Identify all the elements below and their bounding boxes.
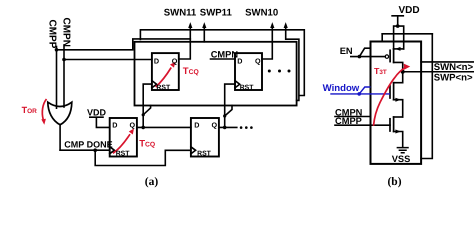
wire SWP10 wrap-around bus xyxy=(286,26,299,101)
arrow Tcq upper FF1 xyxy=(156,68,172,88)
junction dot VDD node xyxy=(396,24,400,28)
ellipsis inside slice box xyxy=(268,70,271,73)
arrowhead T3T xyxy=(404,64,411,70)
wire tap diagonal to slice box bottom xyxy=(143,106,150,115)
svg-text:Q: Q xyxy=(212,121,218,130)
transistor M2 channel xyxy=(393,83,395,100)
svg-text:SWN<n>: SWN<n> xyxy=(434,62,474,73)
junction dot CMPP rail xyxy=(55,48,59,52)
wire CMP DONE xyxy=(60,149,110,151)
arrow TOR timing xyxy=(42,99,46,120)
wire VDD rail horizontal xyxy=(382,33,432,35)
svg-text:CMPN: CMPN xyxy=(211,49,239,59)
upper flip-flop FF1 box xyxy=(152,53,179,90)
arrow SWP11 from slice box top xyxy=(203,26,205,42)
transistor M2 gate bar xyxy=(389,86,391,99)
svg-text:RST: RST xyxy=(156,85,171,92)
svg-text:RST: RST xyxy=(240,85,255,92)
wire tap diagonal 2 to slice box bottom xyxy=(225,106,232,117)
wire clock riser to upper FF1 xyxy=(143,84,152,127)
junction dot CMPN rail xyxy=(62,58,66,62)
junction dot clock riser tap xyxy=(142,113,145,116)
transistor M1 source lead with PMOS arrow xyxy=(394,48,404,50)
wire M1 drain down to node xyxy=(394,62,403,71)
junction dot lower FF1 Q xyxy=(141,126,145,130)
junction dot lower FF2 Q xyxy=(223,126,227,130)
wire upper FF2 Q out to SWN10 xyxy=(262,26,272,60)
node CMPN input vertical xyxy=(63,45,65,107)
transistor M1 PMOS channel xyxy=(393,49,395,63)
wire EN tap diagonal to box xyxy=(359,48,370,56)
svg-text:TCQ: TCQ xyxy=(183,66,199,77)
svg-text:EN: EN xyxy=(340,46,353,56)
wire VDD branch loop xyxy=(394,26,404,49)
junction dot EN tap xyxy=(358,55,362,59)
wire lower FF1 Q to lower FF2 D xyxy=(137,126,191,128)
wire M2 drain up to node xyxy=(394,72,403,83)
ellipsis after lower FF2 xyxy=(240,126,243,129)
svg-text:SWN11: SWN11 xyxy=(164,8,197,19)
upper FF2 clock wedge xyxy=(235,81,240,88)
svg-text:VDD: VDD xyxy=(398,5,419,16)
svg-text:CMPN: CMPN xyxy=(61,18,72,47)
red annotations figure (a) xyxy=(41,62,175,154)
svg-text:CMPP: CMPP xyxy=(335,116,362,126)
svg-text:D: D xyxy=(154,56,159,65)
svg-text:D: D xyxy=(237,56,242,65)
wire EN to gate xyxy=(351,56,385,58)
svg-text:RST: RST xyxy=(116,151,131,158)
power VDD T-bar (b) xyxy=(392,16,403,26)
wire upper FF1 Q out to SWN11 xyxy=(179,26,191,60)
arrowhead SWP11 xyxy=(202,22,206,28)
wire bottom feedback to lower FF2 clock xyxy=(95,150,191,165)
arrowhead SWN11 xyxy=(188,22,192,28)
arrowhead M1 source (points to channel) xyxy=(395,47,400,51)
svg-text:TCQ: TCQ xyxy=(139,139,155,150)
svg-text:D: D xyxy=(112,121,117,130)
upper FF1 clock wedge xyxy=(152,81,157,88)
wire OR output down xyxy=(59,124,61,150)
junction dot CMP DONE xyxy=(93,148,97,152)
slice front box xyxy=(135,42,297,106)
lower FF2 clock wedge xyxy=(191,147,196,154)
wire VDD stub into box xyxy=(381,34,383,42)
svg-text:TOR: TOR xyxy=(22,105,38,115)
svg-text:Q: Q xyxy=(255,56,261,65)
arrowhead SWP10 xyxy=(284,22,288,28)
svg-text:Q: Q xyxy=(130,121,136,130)
wire M3 drain (shared with M2 source vertical) xyxy=(394,116,403,118)
svg-text:SWN10: SWN10 xyxy=(245,8,278,19)
slice box (b) xyxy=(371,42,422,164)
svg-text:RST: RST xyxy=(197,151,212,158)
junction dot clock riser tap 2 xyxy=(223,114,226,117)
wire CMPP to M3 gate xyxy=(335,124,390,126)
wire VDD right rail down and into box edge xyxy=(421,34,432,159)
node CMPP input vertical xyxy=(56,47,58,109)
arrow T3T timing xyxy=(374,68,406,126)
slice stack back box xyxy=(140,30,304,96)
red annotation T3T xyxy=(374,64,411,126)
wire Window tap diagonal to box xyxy=(359,87,370,94)
svg-text:(a): (a) xyxy=(145,176,159,188)
wire lower FF2 Q out xyxy=(219,126,237,128)
lower flip-flop FF2 box xyxy=(191,118,219,157)
transistor M1 gate bar xyxy=(389,50,391,61)
ground VSS symbol xyxy=(397,148,408,153)
arrowhead M3 source xyxy=(395,130,401,134)
svg-text:Q: Q xyxy=(172,56,178,65)
svg-text:(b): (b) xyxy=(387,176,401,188)
svg-text:Window: Window xyxy=(323,83,360,94)
lower FF1 clock wedge xyxy=(110,147,115,154)
power VDD stub (a) xyxy=(90,117,110,127)
wire M3 source with NMOS arrow to VSS xyxy=(394,132,403,148)
junction dot output node xyxy=(401,70,405,74)
svg-text:VDD: VDD xyxy=(87,107,107,117)
arrow Tcq lower FF1 xyxy=(113,134,130,153)
wire CMPN to box edge xyxy=(335,116,371,118)
arrowhead SWN10 xyxy=(270,22,274,28)
junction dot Window tap xyxy=(357,92,361,96)
svg-text:CMP DONE: CMP DONE xyxy=(64,140,112,150)
OR gate G1 pointing down xyxy=(48,102,72,125)
transistor M3 channel xyxy=(393,117,395,132)
wire SWN<n> output from box edge xyxy=(421,61,474,63)
wire CMPP rail jog over slice box top xyxy=(57,39,191,50)
svg-text:SWP<n>: SWP<n> xyxy=(434,73,473,84)
wire SWP<n> output xyxy=(403,71,474,73)
svg-text:D: D xyxy=(194,121,199,130)
transistor M1 gate bubble xyxy=(385,55,388,58)
svg-text:VSS: VSS xyxy=(392,154,411,164)
blue window net xyxy=(330,87,390,96)
arrowhead M2 source (points away) xyxy=(395,98,401,102)
upper flip-flop FF2 box xyxy=(235,53,262,90)
wire CMPN rail to upper FF1 D xyxy=(64,59,152,61)
svg-text:T3T: T3T xyxy=(374,66,387,76)
transistor M3 gate bar xyxy=(389,119,391,131)
wire Window to M2 gate xyxy=(330,93,390,95)
lower flip-flop FF1 box xyxy=(110,118,137,157)
wire clock riser to upper FF2 xyxy=(225,84,235,127)
wire CMPN to upper FF2 D xyxy=(211,58,236,60)
wire M2 source with NMOS arrow xyxy=(394,100,403,117)
svg-text:SWP11: SWP11 xyxy=(200,8,233,19)
svg-text:CMPP: CMPP xyxy=(47,20,58,49)
